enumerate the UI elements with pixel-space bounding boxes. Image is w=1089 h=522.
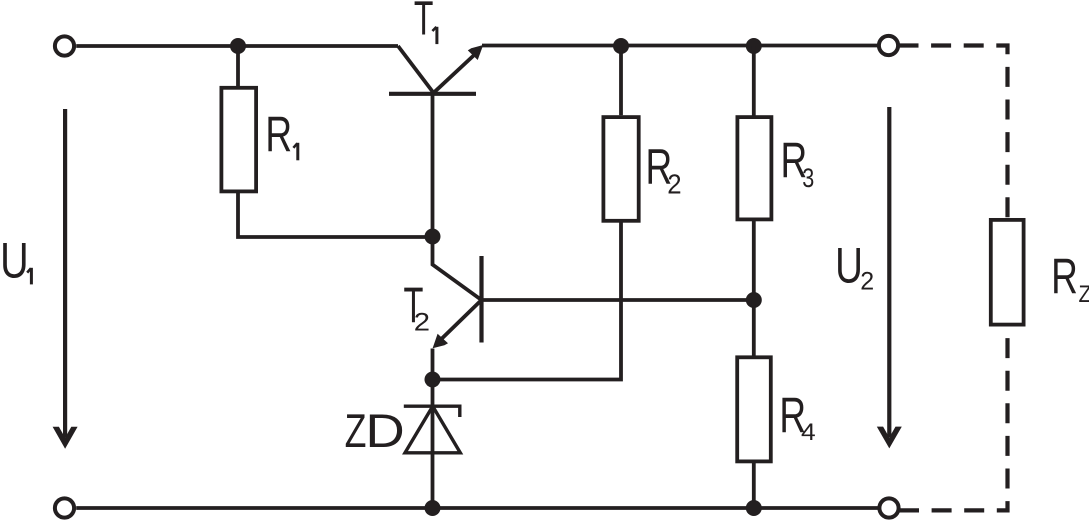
svg-text:2: 2 xyxy=(414,308,430,336)
wire zener node to R2 bottom xyxy=(433,223,622,380)
terminal OUT- (bottom right) xyxy=(879,498,898,517)
svg-text:R: R xyxy=(1051,249,1078,305)
resistor R4 xyxy=(737,357,771,461)
wire top rail right segment xyxy=(482,44,879,48)
zener diode ZD cathode bar xyxy=(404,406,460,417)
wire dashed RZ bottom to output xyxy=(899,327,1008,511)
wire R3 bottom lead to divider node xyxy=(752,221,756,300)
wire R3 top lead xyxy=(752,46,756,117)
transistor Q T1: collector wire from input rail xyxy=(398,46,433,92)
svg-text:Z: Z xyxy=(345,404,367,457)
arrow U2 (output voltage) shaft xyxy=(887,107,891,437)
terminal IN- (bottom left) xyxy=(55,498,74,517)
resistor RZ (load) xyxy=(991,220,1024,325)
wire R1 bottom lead to T1 base node xyxy=(238,193,431,238)
resistor R2 xyxy=(603,117,638,221)
node junction R3 / top rail xyxy=(746,38,762,54)
wire dashed output to RZ top xyxy=(899,46,1008,219)
wire R2 top lead xyxy=(619,46,623,115)
svg-text:D: D xyxy=(365,404,404,457)
transistor T2 collector wire xyxy=(433,237,482,301)
node junction R2 / top rail xyxy=(613,38,629,54)
wire bottom rail xyxy=(76,506,879,510)
svg-text:R: R xyxy=(265,107,292,163)
transistor T2 base bar xyxy=(479,256,483,343)
arrow U2 head xyxy=(877,427,902,449)
node junction R1 / top rail xyxy=(230,38,246,54)
resistor R3 xyxy=(737,117,771,219)
wire T2 emitter down to zener node xyxy=(431,349,435,380)
svg-text:2: 2 xyxy=(860,268,874,296)
transistor T1 base bar xyxy=(389,92,476,96)
terminal IN+ (top left) xyxy=(55,36,74,55)
node junction R4 / bottom rail xyxy=(746,500,762,516)
wire R4 top lead xyxy=(752,300,756,357)
transistor T1 emitter arrowhead xyxy=(468,45,483,60)
svg-text:4: 4 xyxy=(801,419,816,446)
svg-text:3: 3 xyxy=(802,164,814,194)
node junction divider R3/R4/T2 base xyxy=(746,292,762,308)
svg-text:U: U xyxy=(0,232,29,289)
transistor T1 emitter wire with arrow to output rail xyxy=(433,56,474,94)
transistor T2 emitter arrowhead xyxy=(433,334,448,348)
node junction T1 base / R1 / T2 collector xyxy=(425,229,441,245)
wire top rail left segment xyxy=(76,44,398,48)
wire R1 top lead xyxy=(236,46,240,87)
resistor R1 xyxy=(221,88,256,192)
arrow U1 head xyxy=(53,427,78,449)
transistor T2 emitter wire xyxy=(442,300,482,339)
wire zener cathode lead xyxy=(431,380,435,509)
wire T1 base down to node xyxy=(431,95,435,237)
wire T2 base to divider node xyxy=(482,298,754,302)
svg-text:U: U xyxy=(835,239,863,294)
node junction zener / R2 return / T2 emitter xyxy=(425,372,441,388)
wire R4 bottom lead xyxy=(752,461,756,508)
svg-text:T: T xyxy=(414,0,434,45)
node junction zener / bottom rail xyxy=(425,500,441,516)
zener diode ZD triangle xyxy=(405,406,460,453)
terminal OUT+ (top right) xyxy=(879,36,898,55)
arrow U1 (input voltage) shaft xyxy=(63,109,67,438)
svg-text:2: 2 xyxy=(667,169,681,200)
svg-text:Z: Z xyxy=(1079,280,1089,307)
